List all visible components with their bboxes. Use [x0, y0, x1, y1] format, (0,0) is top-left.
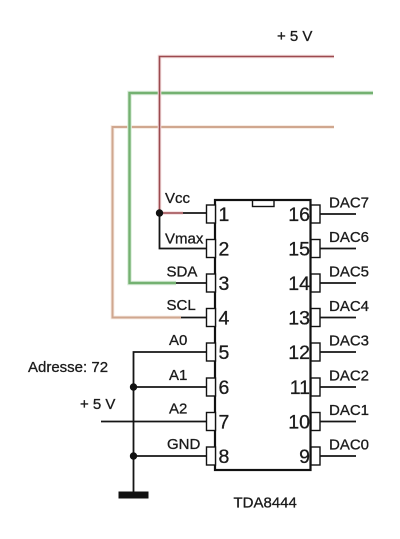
pin 5: [207, 343, 216, 361]
junction dot Vcc node: [156, 209, 163, 216]
svg-text:DAC3: DAC3: [329, 333, 369, 350]
svg-text:15: 15: [288, 239, 310, 261]
svg-text:SCL: SCL: [167, 297, 196, 314]
pin 1: [207, 205, 216, 223]
svg-text:DAC6: DAC6: [329, 229, 369, 246]
svg-text:GND: GND: [167, 436, 201, 453]
pin 13: [311, 309, 320, 327]
svg-text:DAC4: DAC4: [329, 298, 369, 315]
pin 6: [207, 378, 216, 396]
pin 10: [311, 413, 320, 431]
svg-text:10: 10: [288, 412, 310, 434]
IC body U1 TDA8444: [215, 200, 311, 470]
pin 14: [311, 274, 320, 292]
svg-text:A2: A2: [169, 401, 187, 418]
svg-text:3: 3: [219, 273, 230, 295]
svg-text:11: 11: [290, 377, 310, 399]
wire to pin 3 SDA (black segment): [176, 282, 208, 284]
wire DAC4 (pin 13): [320, 317, 356, 319]
wire DAC6 (pin 15): [320, 248, 356, 250]
svg-text:Vmax: Vmax: [165, 231, 204, 248]
svg-text:7: 7: [219, 412, 230, 434]
svg-text:9: 9: [299, 446, 310, 468]
junction dot A1 node: [130, 383, 137, 390]
pin 8: [207, 447, 216, 465]
svg-text:6: 6: [219, 377, 230, 399]
wire Vmax branch to pin 2: [160, 213, 209, 249]
pin 11: [311, 378, 320, 396]
pin 3: [207, 274, 216, 292]
pin 16: [311, 205, 320, 223]
svg-text:+ 5 V: + 5 V: [80, 396, 115, 413]
svg-text:8: 8: [219, 446, 230, 468]
wire DAC1 (pin 10): [320, 421, 356, 423]
svg-text:DAC2: DAC2: [329, 368, 369, 385]
notch (pin-1 orientation mark): [253, 200, 275, 207]
pin 2: [207, 240, 216, 258]
pin 9: [311, 447, 320, 465]
wire GND to pin 8: [134, 455, 209, 457]
svg-text:A0: A0: [169, 332, 187, 349]
wire +5V to Vcc (red): [160, 57, 335, 214]
wire A1 to pin 6: [134, 386, 209, 388]
svg-text:12: 12: [288, 342, 310, 364]
pin 15: [311, 240, 320, 258]
svg-text:TDA8444: TDA8444: [234, 495, 297, 512]
wire DAC2 (pin 11): [320, 386, 356, 388]
wire A0 to pin 5 and ground rail: [134, 352, 209, 492]
pin 12: [311, 343, 320, 361]
wire to pin 1 Vcc (black segment): [183, 212, 208, 214]
pin 7: [207, 413, 216, 431]
svg-text:+ 5 V: + 5 V: [277, 28, 312, 45]
wire DAC5 (pin 14): [320, 282, 356, 284]
svg-text:5: 5: [219, 342, 230, 364]
ground symbol: [119, 492, 149, 499]
junction dot GND node: [130, 452, 137, 459]
wire SDA bus (green): [130, 93, 374, 283]
svg-text:SDA: SDA: [167, 264, 198, 281]
wire to pin 4 SCL (black segment): [181, 317, 208, 319]
wire DAC3 (pin 12): [320, 351, 356, 353]
svg-text:DAC5: DAC5: [329, 264, 369, 281]
svg-text:DAC0: DAC0: [329, 437, 369, 454]
svg-text:13: 13: [288, 308, 310, 330]
wire SCL bus (orange): [113, 127, 335, 318]
wire DAC0 (pin 9): [320, 455, 356, 457]
svg-text:1: 1: [219, 204, 230, 226]
wire +5V to pin 7 A2: [101, 421, 208, 423]
svg-text:Vcc: Vcc: [165, 190, 191, 207]
wire DAC7 (pin 16): [320, 213, 356, 215]
svg-text:16: 16: [288, 204, 310, 226]
pin 4: [207, 309, 216, 327]
svg-text:A1: A1: [169, 367, 187, 384]
svg-text:2: 2: [219, 239, 230, 261]
svg-text:14: 14: [288, 273, 310, 295]
svg-text:DAC1: DAC1: [329, 402, 369, 419]
svg-text:Adresse: 72: Adresse: 72: [28, 359, 108, 376]
svg-text:DAC7: DAC7: [329, 195, 369, 212]
svg-text:4: 4: [219, 308, 230, 330]
